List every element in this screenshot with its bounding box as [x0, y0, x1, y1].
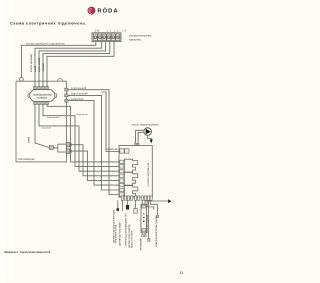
valve comb plug 1 [66, 143, 71, 147]
plug [157, 215, 159, 217]
wire from casing plug 2 [68, 95, 119, 190]
svg-text:розпалу: розпалу [38, 97, 48, 100]
T1 bottom pin plugs [34, 102, 48, 105]
control board PCB [119, 146, 152, 198]
svg-text:синій: синій [27, 136, 31, 143]
wire flame electrode right [150, 200, 157, 215]
svg-text:трансформатор: трансформатор [33, 92, 52, 96]
wire electrode left [148, 200, 150, 238]
svg-text:жовто-зелений: жовто-зелений [71, 93, 88, 96]
wire valve comb1 [71, 145, 119, 176]
enclosure box (boiler casing) [16, 81, 66, 162]
wire pump upper to board [136, 130, 144, 143]
wire T1 pin1 to gas valve (blue) [35, 105, 58, 148]
svg-text:коричневий: коричневий [47, 116, 60, 119]
svg-text:⏚ N: ⏚ N [94, 29, 99, 33]
svg-text:насос циркуляційний: насос циркуляційний [132, 122, 159, 126]
gas valve [49, 144, 66, 152]
svg-text:червоний: червоний [41, 126, 51, 129]
board top connector boxes [120, 149, 129, 153]
wire stub corner [147, 200, 154, 209]
wire L-N drops from X1 to transformer pins [35, 42, 102, 87]
svg-text:опалення котла: опалення котла [115, 224, 118, 243]
wire T1 pin4 right then down [47, 105, 119, 162]
svg-text:чорний: чорний [41, 63, 45, 72]
wire ionisation electrode [121, 200, 123, 211]
wire spark plug black [127, 200, 129, 205]
sensor connector [134, 209, 137, 214]
wire T1 pin3 right then down [43, 105, 119, 167]
svg-text:термостат: термостат [106, 148, 119, 151]
svg-text:коричневий: коричневий [71, 87, 87, 90]
terminal block X1 [92, 33, 121, 42]
svg-text:підключень.: підключень. [129, 38, 142, 41]
wire pump to mains arrow [148, 135, 152, 139]
svg-text:електрод контролю полумя: електрод контролю полумя [155, 215, 158, 247]
top bump [58, 79, 63, 82]
svg-text:RÖDA: RÖDA [97, 8, 118, 15]
board left plug rects (8) [120, 160, 124, 196]
logo icon (red swirl) [87, 7, 95, 15]
svg-text:повітрозабірник: повітрозабірник [18, 158, 36, 161]
casing side plugs (3) [65, 88, 68, 102]
wire [39, 42, 106, 87]
wire from casing plug 3 [68, 101, 119, 186]
wire T1 pin2 right then down [39, 105, 119, 172]
svg-text:жовто-зелений: жовто-зелений [29, 54, 33, 72]
svg-text:синій: синій [33, 65, 37, 72]
arrow bottom [168, 199, 171, 203]
board stepped connector socket 3 [124, 186, 137, 199]
svg-text:датчик протоку води: датчик протоку води [118, 222, 121, 246]
board bottom pins [121, 196, 152, 200]
rotated component labels under board [112, 209, 158, 250]
svg-text:плата керування: плата керування [146, 162, 150, 186]
igniter block [141, 204, 147, 237]
wire probe left [117, 200, 119, 208]
pump plug rects [135, 143, 140, 146]
cable grommet [20, 77, 24, 81]
svg-text:L1 L2 L3: L1 L2 L3 [107, 29, 128, 33]
black plug left [117, 208, 120, 211]
pump P1 [144, 128, 152, 136]
svg-text:синій-білий: синій-білий [71, 98, 84, 101]
svg-text:пресостат вент.: пресостат вент. [131, 230, 134, 248]
board stepped connector socket 1 [124, 159, 137, 172]
board stepped connector socket 2 [124, 172, 137, 185]
svg-text:клапан газовий: клапан газовий [146, 214, 149, 232]
wire sensor [135, 200, 137, 208]
svg-text:Схема електричних підключень.: Схема електричних підключень. [10, 21, 87, 26]
wire colour labels (rotated) [29, 54, 45, 72]
wire to mains arrow bottom [146, 199, 169, 202]
valve comb plug 2 [66, 149, 71, 153]
svg-text:колодка електричних: колодка електричних [129, 36, 152, 38]
svg-text:електрод розпалювання №1: електрод розпалювання №1 [124, 213, 127, 246]
wire pump lower to board [138, 133, 144, 144]
plug [148, 238, 150, 241]
wire [43, 42, 110, 87]
wire earth from X1 to grommet [21, 42, 95, 78]
wire valve comb2 [71, 151, 119, 181]
svg-text:Малюнок 2 - Електрична схема к: Малюнок 2 - Електрична схема котла [4, 251, 50, 254]
svg-text:коричневий: коричневий [37, 57, 41, 72]
arrow to supply [150, 140, 153, 144]
wire to room stat boxes [102, 92, 120, 152]
wires to igniter [142, 200, 145, 204]
wire from casing plug 1 [68, 90, 119, 195]
svg-text:11: 11 [179, 271, 183, 275]
black connector [126, 205, 129, 210]
ignition transformer T1 [28, 90, 57, 102]
T1 top pin plugs [34, 86, 48, 89]
wire [47, 42, 114, 87]
svg-text:заземлення: заземлення [76, 114, 89, 116]
svg-text:запальник: запальник [139, 238, 142, 251]
